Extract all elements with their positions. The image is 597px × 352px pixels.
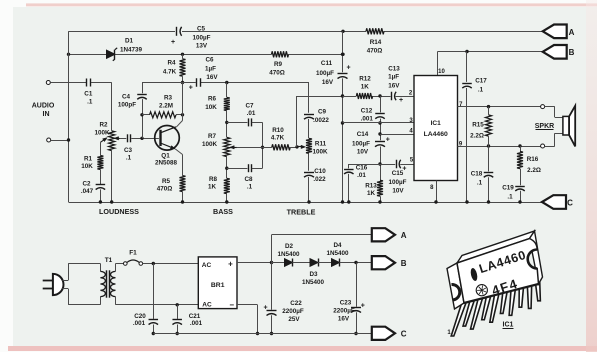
svg-text:BR1: BR1 (211, 282, 225, 289)
svg-text:2.2Ω: 2.2Ω (527, 167, 541, 174)
svg-text:100µF: 100µF (352, 140, 370, 147)
svg-text:.022: .022 (313, 176, 326, 183)
svg-text:C10: C10 (314, 168, 326, 175)
svg-text:C4: C4 (122, 93, 131, 100)
svg-text:D3: D3 (309, 271, 318, 278)
svg-text:2N5088: 2N5088 (155, 160, 178, 167)
svg-text:R6: R6 (208, 96, 217, 103)
svg-text:B: B (569, 48, 575, 57)
svg-text:.1: .1 (247, 184, 253, 191)
svg-text:A: A (401, 231, 407, 240)
svg-text:R16: R16 (527, 156, 539, 163)
svg-text:10K: 10K (205, 104, 217, 111)
svg-text:10K: 10K (81, 163, 93, 170)
svg-text:R10: R10 (272, 127, 284, 134)
svg-text:F1: F1 (129, 250, 137, 257)
svg-text:1µF: 1µF (388, 73, 399, 80)
svg-text:100µF: 100µF (389, 179, 407, 186)
svg-text:A: A (569, 28, 575, 37)
svg-text:100pF: 100pF (118, 102, 136, 109)
svg-text:+: + (399, 97, 403, 104)
svg-text:LOUDNESS: LOUDNESS (99, 207, 139, 216)
svg-text:25V: 25V (288, 316, 300, 323)
svg-text:470Ω: 470Ω (269, 70, 285, 77)
svg-text:C12: C12 (361, 108, 373, 115)
svg-text:R14: R14 (370, 39, 382, 46)
svg-text:C9: C9 (318, 109, 327, 116)
svg-text:C1: C1 (84, 90, 93, 97)
svg-text:1K: 1K (361, 83, 370, 90)
svg-text:SPKR: SPKR (535, 123, 554, 130)
svg-text:.1: .1 (477, 179, 483, 186)
svg-text:100K: 100K (312, 148, 328, 155)
svg-text:IN: IN (43, 111, 50, 118)
svg-text:R13: R13 (365, 183, 377, 190)
svg-text:IC1: IC1 (431, 120, 442, 127)
svg-text:+: + (171, 39, 175, 46)
svg-text:R7: R7 (208, 133, 217, 140)
svg-text:R2: R2 (99, 122, 108, 129)
svg-text:R4: R4 (167, 59, 176, 66)
svg-text:C13: C13 (388, 65, 400, 72)
svg-text:C2: C2 (82, 180, 91, 187)
svg-text:C17: C17 (475, 77, 487, 84)
svg-text:2200µF: 2200µF (333, 307, 355, 314)
svg-text:.1: .1 (507, 194, 513, 201)
svg-text:Q1: Q1 (161, 153, 170, 160)
svg-text:+: + (189, 84, 193, 91)
svg-text:.0022: .0022 (313, 117, 329, 124)
svg-text:4.7K: 4.7K (271, 134, 285, 141)
svg-text:D2: D2 (285, 243, 294, 250)
svg-text:C23: C23 (340, 299, 352, 306)
svg-text:B: B (401, 259, 407, 268)
svg-text:470Ω: 470Ω (367, 47, 383, 54)
svg-text:470Ω: 470Ω (157, 186, 173, 193)
svg-text:1K: 1K (208, 184, 217, 191)
svg-text:+: + (263, 304, 267, 311)
svg-text:C8: C8 (244, 176, 253, 183)
svg-text:13V: 13V (196, 43, 208, 50)
svg-text:BASS: BASS (213, 207, 233, 216)
svg-text:100µF: 100µF (316, 70, 334, 77)
svg-text:C16: C16 (356, 164, 368, 171)
svg-text:100K: 100K (202, 141, 218, 148)
svg-text:R5: R5 (162, 178, 171, 185)
svg-text:R9: R9 (274, 61, 283, 68)
svg-text:R11: R11 (315, 140, 327, 147)
svg-text:C5: C5 (197, 26, 206, 33)
svg-text:16V: 16V (206, 74, 218, 81)
svg-text:C19: C19 (502, 184, 514, 191)
svg-text:100µF: 100µF (193, 34, 211, 41)
svg-text:.01: .01 (247, 110, 256, 117)
svg-text:16V: 16V (388, 82, 400, 89)
svg-text:D1: D1 (125, 37, 134, 44)
svg-text:1N4739: 1N4739 (120, 47, 143, 54)
svg-text:1µF: 1µF (205, 65, 216, 72)
svg-text:C: C (567, 198, 573, 207)
svg-text:+: + (228, 259, 233, 268)
svg-text:TREBLE: TREBLE (287, 208, 316, 217)
svg-text:.1: .1 (87, 99, 93, 106)
svg-text:10V: 10V (357, 148, 369, 155)
svg-text:−: − (229, 301, 234, 310)
svg-text:1N5400: 1N5400 (326, 250, 349, 257)
svg-text:16V: 16V (322, 79, 334, 86)
svg-text:10: 10 (438, 69, 445, 75)
svg-text:.001: .001 (133, 320, 146, 327)
svg-text:LA4460: LA4460 (424, 131, 448, 138)
svg-text:1N5400: 1N5400 (277, 251, 300, 258)
svg-text:C14: C14 (357, 131, 369, 138)
svg-text:C6: C6 (205, 57, 214, 64)
svg-text:+: + (402, 165, 406, 172)
svg-text:.1: .1 (126, 154, 132, 161)
svg-text:C3: C3 (124, 147, 133, 154)
svg-text:AUDIO: AUDIO (32, 103, 55, 110)
svg-text:R1: R1 (84, 155, 93, 162)
svg-text:R3: R3 (164, 95, 173, 102)
svg-text:.1: .1 (478, 86, 484, 93)
svg-text:IC1: IC1 (503, 321, 514, 328)
svg-text:C18: C18 (471, 170, 483, 177)
svg-text:2.2Ω: 2.2Ω (470, 132, 484, 139)
svg-text:16V: 16V (338, 315, 350, 322)
svg-text:2.2M: 2.2M (159, 103, 173, 110)
svg-text:D4: D4 (333, 242, 342, 249)
svg-text:+: + (386, 137, 390, 144)
svg-text:C7: C7 (245, 102, 254, 109)
svg-text:R8: R8 (209, 176, 218, 183)
svg-text:.001: .001 (190, 320, 203, 327)
svg-text:R12: R12 (359, 76, 371, 83)
svg-text:2200µF: 2200µF (282, 308, 304, 315)
svg-text:+: + (346, 65, 350, 72)
svg-text:100K: 100K (94, 130, 110, 137)
svg-text:C22: C22 (290, 300, 302, 307)
svg-text:R15: R15 (472, 122, 484, 129)
svg-text:C: C (401, 330, 407, 339)
svg-text:T1: T1 (105, 257, 113, 264)
svg-text:AC: AC (202, 301, 212, 308)
svg-text:1K: 1K (367, 190, 376, 197)
svg-text:1N5400: 1N5400 (302, 279, 325, 286)
svg-text:10V: 10V (392, 188, 404, 195)
svg-text:.047: .047 (81, 188, 94, 195)
svg-text:.01: .01 (357, 172, 366, 179)
svg-text:+: + (361, 303, 365, 310)
svg-text:4.7K: 4.7K (163, 68, 177, 75)
svg-text:C11: C11 (321, 60, 333, 67)
svg-text:.001: .001 (361, 116, 374, 123)
svg-text:AC: AC (202, 262, 212, 269)
